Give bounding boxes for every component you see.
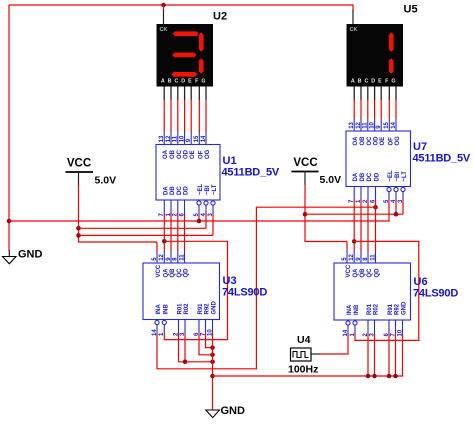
svg-text:DC: DC: [177, 186, 183, 195]
svg-text:OA: OA: [163, 149, 169, 159]
svg-text:D: D: [371, 79, 375, 85]
wire U6 R92: [395, 334, 397, 377]
svg-text:OE: OE: [380, 137, 386, 146]
svg-text:~BI: ~BI: [395, 172, 401, 182]
svg-text:14: 14: [391, 121, 397, 128]
junction U6 R02: [372, 374, 377, 379]
wire U1 DA to U3 QA: [163, 213, 165, 251]
svg-text:OC: OC: [177, 149, 183, 159]
wire U6 GND pin: [402, 334, 404, 377]
svg-text:GND: GND: [402, 301, 408, 315]
counter U6 74LS90: [334, 251, 411, 337]
wire U3 R02: [184, 333, 186, 362]
svg-text:VCC: VCC: [293, 157, 317, 169]
svg-text:DD: DD: [184, 186, 190, 195]
junction QA net: [162, 239, 167, 244]
svg-text:QD: QD: [184, 268, 190, 278]
wire U3 R91: [199, 333, 213, 355]
svg-text:QC: QC: [177, 268, 183, 278]
junction cascade on QD net: [373, 205, 378, 210]
wire CK rail: [9, 4, 353, 6]
wire U3 R01: [179, 333, 213, 362]
svg-text:R91: R91: [198, 303, 204, 315]
svg-text:12: 12: [349, 253, 355, 260]
svg-text:OC: OC: [367, 136, 373, 146]
svg-text:OA: OA: [353, 136, 359, 146]
svg-text:B: B: [358, 79, 362, 85]
counter U3 74LS90: [143, 251, 220, 337]
label 5.0V left: [95, 175, 117, 187]
svg-text:11: 11: [179, 254, 185, 261]
svg-text:C: C: [364, 79, 368, 85]
svg-text:VCC: VCC: [346, 264, 352, 277]
wire VCC to U7 ~BI ~LT: [305, 200, 403, 215]
svg-text:INB: INB: [163, 304, 169, 315]
svg-text:~EL: ~EL: [198, 183, 204, 195]
label U3: [223, 275, 237, 287]
junction ~EL on GND bus: [197, 219, 202, 224]
svg-text:12: 12: [159, 253, 165, 260]
svg-text:U1: U1: [223, 155, 237, 167]
wire VCC right drop: [304, 185, 306, 243]
wire VCC to U6 pin5: [305, 242, 347, 252]
svg-text:14: 14: [152, 329, 158, 336]
svg-text:OG: OG: [395, 136, 401, 146]
wire U1 DC to U3 QC: [177, 213, 179, 251]
svg-text:GND: GND: [221, 405, 246, 417]
junction GND bus bottom: [210, 374, 215, 379]
svg-text:OF: OF: [198, 150, 204, 159]
wire U7 DA to U6 QA: [353, 200, 355, 252]
svg-text:11: 11: [370, 254, 376, 261]
junction U6 R01: [366, 374, 371, 379]
svg-text:R92: R92: [205, 303, 211, 315]
svg-text:R02: R02: [374, 303, 380, 315]
svg-text:B: B: [168, 79, 172, 85]
clock source U4: [291, 348, 312, 361]
svg-text:U7: U7: [413, 141, 427, 153]
svg-text:CK: CK: [350, 27, 358, 33]
svg-text:INA: INA: [156, 304, 162, 315]
junction VCC to ~LT: [76, 233, 81, 238]
svg-text:D: D: [181, 79, 185, 85]
svg-text:QA: QA: [163, 268, 169, 278]
wire U7 ~EL drop: [388, 200, 390, 222]
svg-text:G: G: [391, 79, 395, 85]
svg-text:OG: OG: [205, 149, 211, 159]
display U5 (digit 1): [347, 24, 404, 87]
svg-text:~LT: ~LT: [402, 171, 408, 182]
svg-text:15: 15: [384, 121, 390, 128]
svg-text:QD: QD: [375, 268, 381, 278]
svg-text:11: 11: [363, 122, 369, 129]
svg-text:OD: OD: [374, 136, 380, 146]
label U1: [223, 155, 237, 167]
wire U3 R92: [206, 333, 213, 348]
junction R01 R02: [183, 360, 188, 365]
svg-text:QB: QB: [170, 268, 176, 278]
junction left rail / GND bus: [7, 219, 12, 224]
svg-text:DA: DA: [353, 172, 359, 181]
wire U6 R01: [367, 334, 369, 377]
wire GND bus y221: [9, 220, 389, 222]
ground GND left: [3, 249, 43, 264]
svg-text:U2: U2: [213, 11, 227, 23]
svg-text:10: 10: [369, 121, 375, 128]
junction ~BI right: [394, 212, 399, 217]
svg-text:4511BD_5V: 4511BD_5V: [413, 153, 471, 165]
svg-text:A: A: [351, 79, 355, 85]
junction R91 to GND chain: [210, 353, 215, 358]
label U2: [213, 11, 227, 23]
svg-text:U4: U4: [297, 334, 311, 346]
svg-text:5.0V: 5.0V: [320, 174, 342, 186]
svg-text:100Hz: 100Hz: [288, 364, 318, 376]
svg-text:G: G: [201, 79, 205, 85]
svg-text:12: 12: [356, 121, 362, 128]
wire cascade U3 INA: [157, 207, 376, 369]
wire VCC left drop: [78, 186, 80, 243]
svg-text:E: E: [378, 79, 382, 85]
svg-text:VCC: VCC: [156, 264, 162, 277]
svg-text:11: 11: [173, 135, 179, 142]
wire U5 segments A-G to U7: [354, 87, 396, 120]
svg-text:~LT: ~LT: [212, 184, 218, 195]
svg-text:OB: OB: [360, 136, 366, 146]
svg-text:A: A: [161, 79, 165, 85]
svg-text:OF: OF: [388, 137, 394, 146]
svg-text:10: 10: [207, 329, 213, 336]
label U6: [414, 276, 428, 288]
svg-text:5.0V: 5.0V: [95, 175, 117, 187]
svg-text:QA: QA: [353, 268, 359, 278]
svg-text:~BI: ~BI: [205, 185, 211, 195]
ground GND bottom: [206, 405, 245, 418]
wire U7 DB to U6 QB: [360, 200, 362, 252]
wire U2 segments A-G to U1: [164, 87, 206, 133]
label U5: [404, 4, 418, 16]
power VCC left symbol: [66, 172, 94, 186]
wire U6 R02: [374, 334, 376, 377]
svg-text:DC: DC: [367, 172, 373, 181]
svg-text:15: 15: [194, 135, 200, 142]
wire U6 R91: [388, 334, 390, 377]
label VCC left: [67, 158, 91, 170]
wire U1 DB to U3 QB: [170, 213, 172, 251]
wire ~BI line: [79, 213, 207, 228]
display U2 (digit 3): [157, 24, 214, 87]
svg-text:74LS90D: 74LS90D: [222, 287, 267, 299]
wire bottom GND bus: [213, 375, 403, 377]
svg-text:OD: OD: [184, 149, 190, 159]
svg-text:INB: INB: [354, 304, 360, 315]
svg-text:13: 13: [349, 121, 355, 128]
svg-text:10: 10: [397, 329, 403, 336]
wire ~LT line: [79, 213, 214, 235]
label U4: [297, 334, 311, 346]
svg-text:GND: GND: [18, 249, 43, 261]
junction R0 to GND chain: [210, 360, 215, 365]
junction rail to U2 CK: [161, 3, 166, 8]
svg-text:QB: QB: [360, 268, 366, 278]
svg-text:R01: R01: [178, 303, 184, 315]
svg-text:DB: DB: [170, 186, 176, 195]
wire U3 GND pin down: [212, 333, 214, 410]
svg-text:R02: R02: [184, 303, 190, 315]
svg-text:DB: DB: [360, 172, 366, 181]
op-amp U1 4511 decoder: [156, 132, 220, 217]
label 5.0V right: [320, 174, 342, 186]
label U3 value: [222, 287, 267, 299]
svg-text:R91: R91: [388, 303, 394, 315]
svg-text:14: 14: [343, 329, 349, 336]
svg-text:QC: QC: [367, 268, 373, 278]
svg-text:74LS90D: 74LS90D: [413, 288, 458, 300]
wire U7 DD to U6 QD: [375, 200, 377, 252]
svg-text:CK: CK: [160, 27, 168, 33]
label VCC right: [293, 157, 317, 169]
junction U6 R92: [393, 374, 398, 379]
wire U4 output: [311, 334, 348, 355]
wire right QA to INB loop: [354, 241, 419, 340]
op-amp U7 4511 decoder: [346, 119, 411, 204]
junction VCC right: [303, 212, 308, 217]
junction VCC to ~BI: [76, 226, 81, 231]
svg-text:4511BD_5V: 4511BD_5V: [222, 167, 280, 179]
junction right QA net: [352, 239, 357, 244]
wire VCC to U3 pin5: [79, 242, 158, 251]
svg-text:14: 14: [201, 135, 207, 142]
svg-text:DA: DA: [163, 186, 169, 195]
label U6 value: [413, 288, 458, 300]
wire U1 DD to U3 QD: [184, 213, 186, 251]
junction U6 R91: [387, 374, 392, 379]
wire U2 CK stub: [163, 5, 165, 25]
junction R92 to GND chain: [210, 345, 215, 350]
label U7 value: [413, 153, 471, 165]
svg-text:OB: OB: [170, 149, 176, 159]
svg-text:C: C: [174, 79, 178, 85]
label U4 value: [288, 364, 318, 376]
svg-text:E: E: [188, 79, 192, 85]
svg-text:13: 13: [159, 135, 165, 142]
power VCC right symbol: [292, 172, 319, 186]
svg-text:R01: R01: [367, 303, 373, 315]
svg-text:R92: R92: [395, 303, 401, 315]
svg-text:U3: U3: [223, 275, 237, 287]
wire QA to INB loop: [164, 241, 227, 339]
svg-text:GND: GND: [212, 301, 218, 315]
wire U5 CK stub: [352, 4, 354, 24]
svg-text:DD: DD: [375, 172, 381, 181]
label U7: [413, 141, 427, 153]
wire left rail drop: [8, 5, 10, 251]
svg-text:12: 12: [166, 135, 172, 142]
svg-text:U6: U6: [414, 276, 428, 288]
wire U1 ~EL drop: [198, 213, 200, 221]
svg-text:U5: U5: [404, 4, 418, 16]
svg-text:~EL: ~EL: [388, 170, 394, 182]
svg-text:10: 10: [179, 135, 185, 142]
svg-text:VCC: VCC: [67, 158, 91, 170]
wire U7 DC to U6 QC: [367, 200, 369, 252]
svg-text:OE: OE: [190, 150, 196, 159]
svg-text:INA: INA: [347, 304, 353, 315]
label U1 value: [222, 167, 280, 179]
